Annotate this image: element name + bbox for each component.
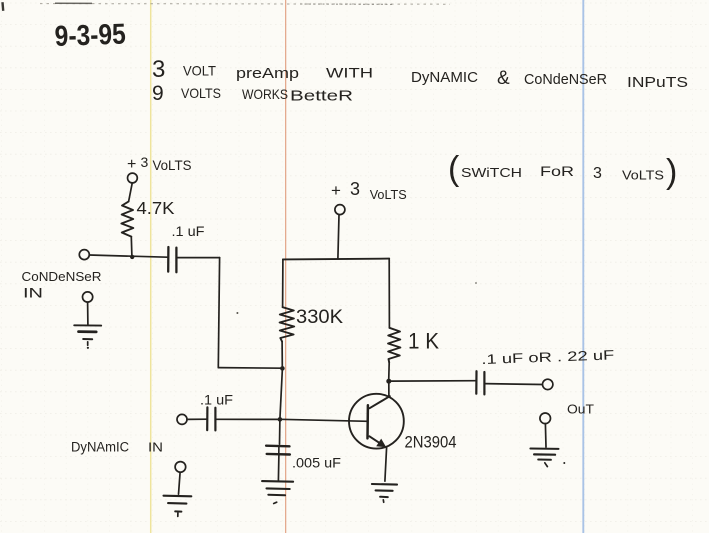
terminal condenser in xyxy=(79,250,89,260)
svg-text:VOLTS: VOLTS xyxy=(181,85,221,101)
wire to 330K node xyxy=(218,367,282,370)
title note line 1 xyxy=(152,56,688,91)
wire base xyxy=(280,419,368,421)
svg-text:330K: 330K xyxy=(296,306,343,328)
svg-text:): ) xyxy=(666,153,677,191)
wire collector feed xyxy=(388,381,390,396)
capacitor C4 .005uF plates xyxy=(266,446,290,455)
svg-text:WITH: WITH xyxy=(326,65,373,81)
svg-text:VoLTS: VoLTS xyxy=(370,187,407,202)
wire C4 plate stub xyxy=(278,446,280,454)
svg-text:IN: IN xyxy=(148,440,163,455)
blue margin line xyxy=(582,0,584,533)
svg-text:IN: IN xyxy=(23,285,43,301)
wire dynamic in xyxy=(187,418,207,420)
terminal dynamic in xyxy=(177,414,187,424)
svg-text:.1 uF: .1 uF xyxy=(200,393,233,408)
wire R2 to node B xyxy=(281,342,283,367)
wire terminal to R1 xyxy=(129,183,133,201)
note (switch for 3 volts) xyxy=(448,150,677,191)
wire C2 to base node xyxy=(216,418,280,420)
svg-text:preAmp: preAmp xyxy=(236,65,299,82)
svg-text:DyNAmIC: DyNAmIC xyxy=(71,440,129,455)
svg-text:VoLTS: VoLTS xyxy=(622,168,664,183)
svg-text:+: + xyxy=(127,156,136,173)
ground G3 emitter xyxy=(372,484,397,502)
wire C4 to ground xyxy=(277,455,280,481)
svg-text:.005 uF: .005 uF xyxy=(292,456,341,471)
capacitor C3 output plates xyxy=(476,371,484,394)
svg-text:VoLTS: VoLTS xyxy=(153,158,192,173)
wire C1 to corner xyxy=(177,257,220,259)
svg-text:(: ( xyxy=(448,150,460,188)
svg-text:3: 3 xyxy=(152,56,165,83)
svg-text:1 K: 1 K xyxy=(408,329,439,354)
svg-text:.1 uF: .1 uF xyxy=(172,224,205,239)
svg-text:3: 3 xyxy=(593,165,602,182)
svg-text:CoNDeNSeR: CoNDeNSeR xyxy=(22,270,102,284)
torn-edge marks top xyxy=(40,3,450,4)
svg-text:4.7K: 4.7K xyxy=(137,198,175,218)
svg-text:BetteR: BetteR xyxy=(290,89,353,105)
yellow margin line xyxy=(150,0,152,533)
ground G1 condenser xyxy=(74,292,101,349)
wire rail left leg xyxy=(282,259,284,307)
svg-text:9: 9 xyxy=(152,82,164,105)
resistor R1 4.7K xyxy=(121,202,133,237)
resistor R2 330K xyxy=(280,307,295,341)
wire R3 to collector node xyxy=(388,362,391,380)
svg-text:9-3-95: 9-3-95 xyxy=(54,19,126,53)
orange margin line xyxy=(285,0,287,533)
svg-text:&: & xyxy=(497,68,510,89)
date note 9-3-95 xyxy=(54,19,126,53)
terminal +3V mid xyxy=(335,205,345,215)
svg-text:OuT: OuT xyxy=(567,402,594,417)
ground G5 xyxy=(262,481,293,503)
ground G4 out xyxy=(530,413,565,467)
terminal +3V left xyxy=(127,173,137,183)
svg-text:WORKS: WORKS xyxy=(242,86,288,102)
svg-text:SWiTCH: SWiTCH xyxy=(461,165,522,180)
stray ink dots xyxy=(236,282,477,314)
svg-text:+: + xyxy=(331,181,341,200)
svg-text:DyNAMIC: DyNAMIC xyxy=(411,70,478,86)
wire base node to C4 xyxy=(279,419,281,444)
wire emitter down xyxy=(385,447,387,481)
wire node B down to base node xyxy=(280,368,283,419)
svg-text:FoR: FoR xyxy=(540,163,574,179)
node junction dot xyxy=(130,255,134,259)
terminal OUT xyxy=(543,379,553,389)
wire output node to C3 xyxy=(391,380,476,382)
wire C3 to out terminal xyxy=(485,383,543,386)
svg-text:VOLT: VOLT xyxy=(183,63,216,79)
corner mark xyxy=(1,2,4,11)
svg-text:3: 3 xyxy=(141,154,149,170)
title note line 2 xyxy=(152,82,353,105)
capacitor C2 .1uF plates xyxy=(207,407,215,430)
svg-text:CoNdeNSeR: CoNdeNSeR xyxy=(524,72,607,88)
node collector dot xyxy=(386,379,391,384)
svg-text:2N3904: 2N3904 xyxy=(405,433,457,452)
node junction dot B xyxy=(280,366,285,371)
svg-text:3: 3 xyxy=(350,179,360,199)
ground G2 dynamic xyxy=(164,462,192,517)
wire condenser in xyxy=(89,255,167,257)
label +3 Volts left xyxy=(127,154,192,173)
svg-text:INPuTS: INPuTS xyxy=(627,75,688,91)
wire terminal to rail xyxy=(338,215,339,259)
label +3 volts mid xyxy=(331,179,407,202)
wire rail horizontal xyxy=(283,258,389,261)
node junction dot base xyxy=(278,417,283,422)
capacitor C1 .1uF plates xyxy=(168,247,176,272)
wire R1 to node xyxy=(130,237,133,257)
wire rail right leg xyxy=(388,259,390,328)
transistor Q1 2N3904 xyxy=(349,394,404,449)
wire corner down xyxy=(218,258,219,368)
resistor R3 1K xyxy=(388,328,400,363)
